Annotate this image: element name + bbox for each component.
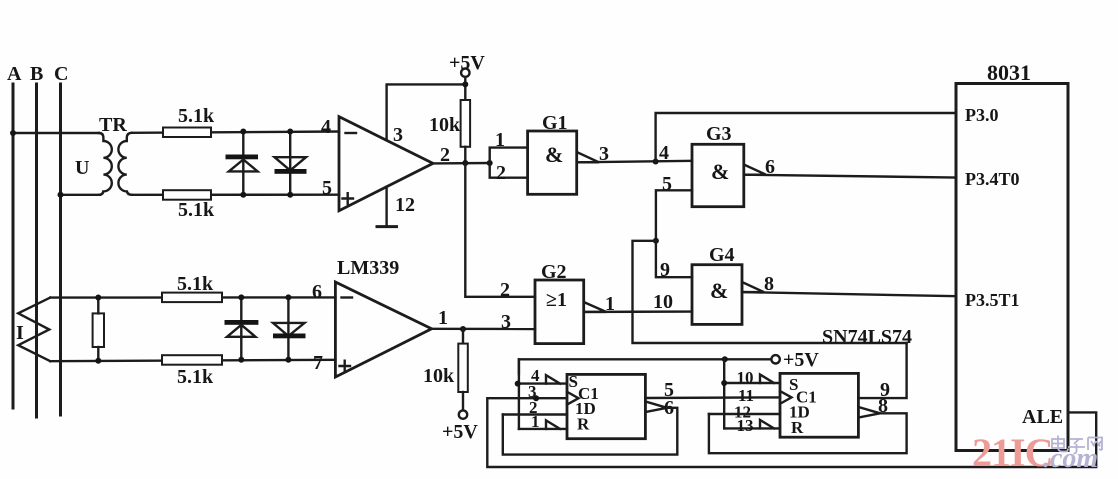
FF1 S input wedge (546, 375, 560, 384)
node on A (10, 130, 16, 136)
node below +5V (462, 81, 468, 87)
resistor R5 5.1k (162, 293, 222, 303)
FF2 Qbar wedge (858, 407, 880, 418)
svg-text:1: 1 (605, 293, 615, 315)
FF1 S wire (519, 382, 567, 384)
svg-text:8: 8 (764, 273, 774, 295)
wire R4 to +5V (462, 392, 464, 410)
gate G1 (528, 131, 577, 194)
node G1 fork (487, 160, 493, 166)
svg-text:G4: G4 (709, 244, 735, 266)
svg-text:10: 10 (653, 291, 673, 313)
FF1 Qbar to 1D loop (503, 408, 678, 455)
node on C (58, 192, 64, 198)
G1 output wedge (577, 152, 599, 162)
FF1 1D wire (503, 413, 567, 415)
svg-text:ALE: ALE (1022, 406, 1063, 428)
FF1 Q output 5 wire to FF2 C1 (645, 396, 780, 399)
comparator U1A triangle (339, 117, 433, 211)
svg-text:5.1k: 5.1k (178, 105, 215, 127)
FF2 R wire (724, 427, 780, 429)
svg-text:8031: 8031 (987, 60, 1031, 85)
svg-text:6: 6 (765, 156, 775, 178)
U1B output wire (432, 328, 535, 331)
svg-text:12: 12 (395, 194, 415, 216)
resistor R2 5.1k (163, 190, 211, 200)
svg-text:5: 5 (662, 173, 672, 195)
FF2 S input wedge (760, 375, 774, 384)
+5V terminal top (461, 69, 469, 77)
svg-text:U: U (75, 157, 89, 179)
svg-text:2: 2 (440, 144, 450, 166)
svg-text:4: 4 (659, 142, 669, 164)
phase line A (12, 84, 15, 408)
G1 input fork (490, 148, 528, 178)
power pin wire 3 (387, 84, 466, 140)
svg-text:≥1: ≥1 (546, 289, 567, 311)
svg-text:5.1k: 5.1k (177, 273, 214, 295)
node rail FF2 (722, 356, 728, 362)
resistor R4 10k (458, 344, 468, 392)
wire TR secondary bottom to comparator (132, 193, 339, 196)
svg-text:B: B (30, 63, 43, 85)
svg-text:7: 7 (313, 352, 323, 374)
svg-text:3: 3 (501, 311, 511, 333)
node U1A output (462, 160, 468, 166)
node shunt top (95, 295, 101, 301)
svg-text:5: 5 (322, 177, 332, 199)
ground (377, 225, 397, 228)
phase line C (59, 84, 62, 415)
node 5/9 tie (653, 238, 659, 244)
minus sign U1A (346, 132, 357, 134)
wire TR primary bottom to C (61, 194, 101, 196)
transformer TR primary winding (99, 133, 112, 195)
FF1 S-R tie (518, 359, 520, 429)
FF2 1D wire (709, 413, 780, 415)
resistor R3 10k (461, 100, 471, 147)
phase line B (35, 84, 38, 417)
node FF1 S (515, 381, 521, 387)
IC 8031 box (956, 84, 1068, 451)
FF1 R wire (519, 428, 567, 430)
G2 output wedge (584, 302, 606, 312)
svg-text:21IC: 21IC (972, 430, 1052, 475)
svg-text:2: 2 (496, 162, 506, 184)
transformer TR secondary winding (118, 133, 132, 195)
G3 input 5 stub (656, 190, 692, 241)
comparator U1B triangle (335, 282, 431, 377)
+5V terminal bottom (459, 410, 467, 418)
svg-text:6: 6 (312, 281, 322, 303)
FF2 Qbar to 1D loop (709, 413, 907, 453)
svg-text:4: 4 (321, 116, 331, 138)
wire G3 out to P3.4T0 (744, 175, 956, 178)
node shunt bottom (95, 358, 101, 364)
wire G2 out to G4 input 10 (584, 310, 692, 313)
svg-text:R: R (791, 418, 804, 437)
node FF2 S (721, 380, 727, 386)
wire A to TR primary (13, 132, 99, 134)
wire node to FF2 output 9 (633, 241, 907, 343)
FF1 Qbar wedge (645, 402, 667, 413)
CT bottom wire (50, 360, 335, 361)
svg-text:1: 1 (495, 129, 505, 151)
svg-text:&: & (711, 159, 729, 184)
FF2 R input wedge (760, 420, 774, 429)
svg-text:+5V: +5V (442, 421, 478, 443)
resistor R6 5.1k (162, 355, 222, 365)
wire down to R4 (462, 329, 464, 344)
svg-text:S: S (569, 372, 578, 391)
svg-text:10k: 10k (423, 365, 455, 387)
svg-text:5.1k: 5.1k (178, 199, 215, 221)
wire node to G4 input 9 (656, 241, 692, 277)
FF1 R input wedge (546, 420, 560, 429)
svg-text:G3: G3 (706, 123, 732, 145)
flip-flop FF2 box (780, 373, 858, 437)
svg-text:3: 3 (393, 124, 403, 146)
svg-text:LM339: LM339 (337, 257, 399, 279)
resistor R1 5.1k (163, 128, 211, 138)
node U1B output (460, 326, 466, 332)
svg-text:9: 9 (660, 259, 670, 281)
plus sign U1B (340, 361, 351, 372)
gate G3 (692, 144, 744, 206)
svg-text:3: 3 (599, 143, 609, 165)
svg-text:13: 13 (737, 416, 754, 435)
FF2 clock wedge (780, 391, 792, 404)
node G1 out (653, 159, 659, 165)
svg-text:G2: G2 (541, 261, 567, 283)
wire G1 out to G3 input 4 (577, 161, 692, 163)
wire R3 to output node (464, 147, 466, 163)
svg-text:5.1k: 5.1k (177, 366, 214, 388)
svg-text:A: A (7, 63, 22, 85)
gate G2 (535, 280, 584, 344)
svg-text:.com: .com (1043, 443, 1098, 474)
FF2 Q output 9 wire (858, 343, 906, 398)
diode D2 (289, 132, 291, 195)
wire node up to P3.0 (656, 113, 956, 162)
FF1 +5V rail (519, 359, 771, 374)
gate G4 (692, 265, 742, 325)
svg-text:P3.5T1: P3.5T1 (965, 290, 1020, 310)
svg-text:10k: 10k (429, 114, 461, 136)
svg-text:2: 2 (500, 279, 510, 301)
G4 output wedge (742, 282, 764, 292)
ALE wire loop (487, 398, 1096, 467)
flip-flop FF1 box (567, 374, 645, 438)
svg-text:1: 1 (438, 307, 448, 329)
svg-text:SN74LS74: SN74LS74 (822, 326, 912, 348)
svg-text:I: I (16, 322, 24, 344)
diode D1 (242, 132, 244, 195)
comparator U1A output wire (433, 162, 490, 165)
svg-text:&: & (545, 142, 563, 167)
wire G4 out to P3.5T1 (742, 292, 956, 296)
svg-text:P3.4T0: P3.4T0 (965, 169, 1020, 189)
svg-text:G1: G1 (542, 112, 568, 134)
wire down to G2 input 2 (465, 163, 535, 297)
svg-text:R: R (577, 415, 590, 434)
node FF1 C1 (533, 395, 539, 401)
svg-text:C: C (54, 63, 68, 85)
ground pin wire 12 (385, 187, 387, 227)
FF1 clock wedge (567, 392, 579, 405)
CT top wire (50, 296, 335, 299)
svg-text:+5V: +5V (783, 349, 819, 371)
svg-text:&: & (710, 278, 728, 303)
minus sign U1B (342, 296, 353, 298)
shunt resistor (93, 313, 104, 347)
svg-text:+5V: +5V (449, 52, 485, 74)
watermark dianziwang (1052, 436, 1102, 454)
FF2 S-R tie (723, 359, 725, 428)
diode D3 (240, 297, 242, 359)
svg-text:P3.0: P3.0 (965, 105, 999, 125)
diode D4 (287, 297, 289, 359)
plus sign U1A (343, 193, 354, 204)
wire TR secondary top to comparator (132, 132, 339, 133)
svg-text:TR: TR (99, 114, 127, 136)
+5V terminal mid (771, 355, 779, 363)
FF2 S wire (724, 382, 780, 384)
svg-text:10: 10 (737, 368, 754, 387)
G3 output wedge (744, 165, 766, 175)
zigzag CT I (18, 298, 50, 362)
